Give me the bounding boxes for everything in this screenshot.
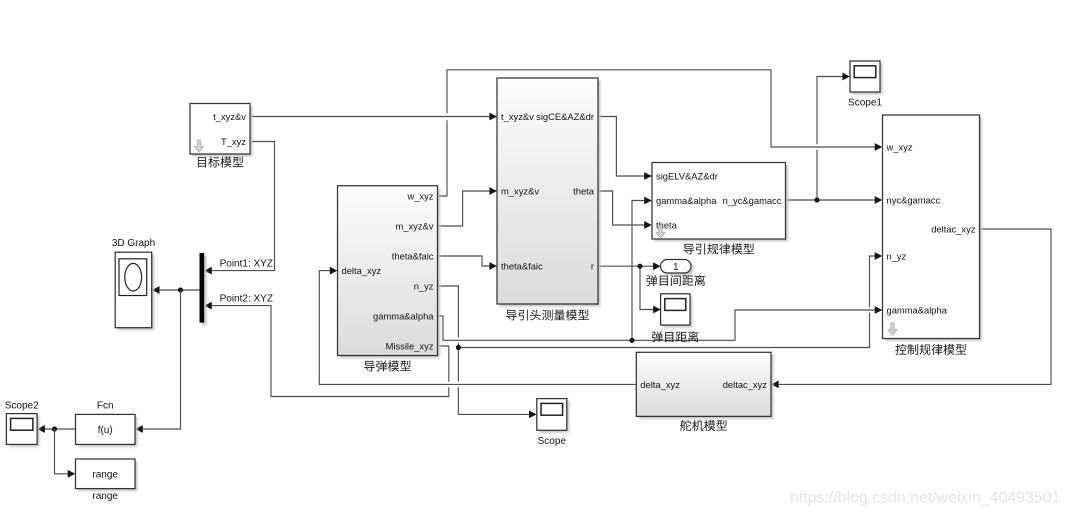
svg-text:nyc&gamacc: nyc&gamacc <box>887 195 941 206</box>
svg-text:gamma&alpha: gamma&alpha <box>656 195 717 206</box>
svg-text:Missile_xyz: Missile_xyz <box>386 341 434 352</box>
svg-text:Scope1: Scope1 <box>848 98 882 109</box>
block 弹目距离 (missile-target distance scope) <box>652 294 699 342</box>
block 舵机模型 (servo model subsystem) with port labels <box>636 352 773 431</box>
wire sigCE&AZ&dr → sigELV&AZ&dr: 导引头测量模型 out1 → 导引规律模型 in1 <box>598 117 652 180</box>
svg-text:deltac_xyz: deltac_xyz <box>723 379 768 390</box>
svg-text:r: r <box>591 261 594 272</box>
svg-text:w_xyz: w_xyz <box>406 191 433 202</box>
block 控制规律模型 (control law model subsystem) with port labels <box>883 115 982 355</box>
wire branch: junction → down → range input <box>55 429 76 478</box>
svg-text:https://blog.csdn.net/weixin_4: https://blog.csdn.net/weixin_40493501 <box>790 490 1060 507</box>
svg-text:gamma&alpha: gamma&alpha <box>887 305 948 316</box>
svg-text:range: range <box>92 470 118 481</box>
wire gamma&alpha: 导弹模型 out5 → 导引规律模型 in2 and 控制规律模型 in4, junction dot <box>438 197 883 343</box>
block Fcn f(u) <box>76 401 138 447</box>
svg-text:Point1: XYZ: Point1: XYZ <box>220 258 273 269</box>
svg-text:n_yz: n_yz <box>414 281 434 292</box>
wire Fcn output → Scope2 input, junction dot <box>37 425 75 433</box>
block Mux (black bar combining Point1/Point2 for 3D Graph) <box>200 253 207 325</box>
svg-text:T_xyz: T_xyz <box>221 136 246 147</box>
wire n_yz: 导弹模型 out4 → 控制规律模型 in3, junction dot, branch down → Scope (gaps at crossings) <box>438 252 883 418</box>
svg-text:Fcn: Fcn <box>97 401 114 412</box>
svg-text:theta&faic: theta&faic <box>392 251 434 262</box>
block outport 1 弹目间距离 (rounded outport) <box>646 260 705 286</box>
svg-text:sigELV&AZ&dr: sigELV&AZ&dr <box>656 171 718 182</box>
wire mux output → 3D Graph input, junction dot <box>152 286 200 294</box>
svg-text:1: 1 <box>673 262 678 273</box>
svg-text:n_yz: n_yz <box>887 251 907 262</box>
svg-text:Point2: XYZ: Point2: XYZ <box>220 293 273 304</box>
wire theta&faic: 导弹模型 out3 → 导引头测量模型 in3 <box>438 256 498 270</box>
svg-text:m_xyz&v: m_xyz&v <box>501 186 539 197</box>
wire theta: 导引头测量模型 out2 → 导引规律模型 in3 <box>598 191 652 229</box>
svg-text:t_xyz&v: t_xyz&v <box>213 111 246 122</box>
block 3D Graph (XY graph scope) <box>112 238 155 330</box>
wire branch: junction → down → Fcn right input <box>135 290 180 433</box>
wire delta_xyz: 舵机模型 out (left) → 导弹模型 delta_xyz input <box>319 267 636 385</box>
svg-text:Scope2: Scope2 <box>5 401 39 412</box>
svg-text:deltac_xyz: deltac_xyz <box>931 224 976 235</box>
block 目标模型 (target model subsystem) with ports t_xyz&v, T_xyz <box>190 104 252 168</box>
watermark <box>790 490 1060 507</box>
block 导引规律模型 (guidance law model subsystem) with port labels <box>652 163 788 255</box>
wire deltac_xyz: 控制规律模型 out → feedback right and down → 舵机模型 right input <box>771 229 1051 388</box>
signal label Point1: XYZ <box>220 258 273 269</box>
signal label Point2: XYZ <box>220 293 273 304</box>
block 导引头测量模型 (seeker measurement model subsystem) with port labels <box>497 78 600 320</box>
svg-text:f(u): f(u) <box>98 425 113 436</box>
block range (To Workspace) <box>76 459 138 502</box>
svg-text:sigCE&AZ&dr: sigCE&AZ&dr <box>536 111 594 122</box>
wire T_xyz: 目标模型 out2 → Mux Point1 input <box>204 142 274 275</box>
svg-text:Scope: Scope <box>538 436 567 447</box>
wire r: 导引头测量模型 out3 → outport 弹目间距离, junction dot, branch down → 弹目距离 scope <box>598 262 661 313</box>
svg-text:theta&faic: theta&faic <box>501 261 543 272</box>
wire m_xyz&v: 导弹模型 out2 → 导引头测量模型 in2 <box>438 187 498 226</box>
svg-text:range: range <box>92 491 118 502</box>
svg-text:delta_xyz: delta_xyz <box>640 379 680 390</box>
block Scope2 (bottom left) <box>5 401 40 447</box>
svg-text:t_xyz&v: t_xyz&v <box>501 111 534 122</box>
svg-text:3D Graph: 3D Graph <box>112 238 155 249</box>
svg-text:n_yc&gamacc: n_yc&gamacc <box>723 195 782 206</box>
wire w_xyz: 导弹模型 out1 → up over top → 控制规律模型 in1 (gap where it crosses t_xyz&v) <box>438 70 883 196</box>
svg-text:m_xyz&v: m_xyz&v <box>395 221 433 232</box>
wire t_xyz&v: 目标模型 out1 → 导引头测量模型 in1 <box>250 113 497 121</box>
wire Missile_xyz: 导弹模型 out6 → Mux Point2 input (gap at crossing) <box>204 302 449 397</box>
svg-text:delta_xyz: delta_xyz <box>342 265 382 276</box>
wire n_yc&gamacc: 导引规律模型 out → 控制规律模型 in2, junction dot, branch up → Scope1 (gap at crossing) <box>786 73 883 204</box>
svg-text:gamma&alpha: gamma&alpha <box>373 311 434 322</box>
block Scope1 <box>848 61 882 109</box>
block 导弹模型 (missile model subsystem) with its port labels <box>338 186 440 372</box>
block Scope (bottom centre) <box>537 399 569 447</box>
svg-text:w_xyz: w_xyz <box>886 142 913 153</box>
svg-text:theta: theta <box>573 186 595 197</box>
